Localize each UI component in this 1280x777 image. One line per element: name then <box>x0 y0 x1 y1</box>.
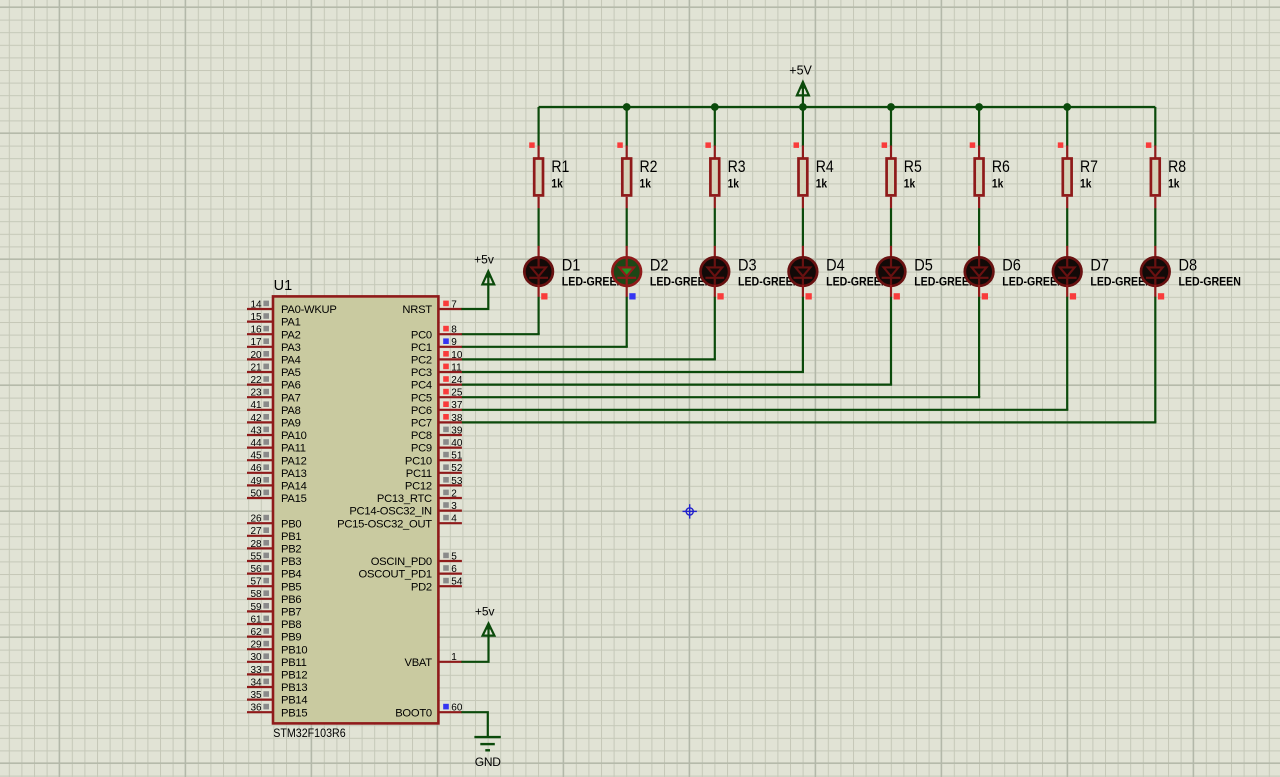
svg-text:45: 45 <box>250 451 262 462</box>
svg-text:8: 8 <box>451 325 457 336</box>
svg-text:34: 34 <box>250 677 262 688</box>
node pin-state square at R8 top (red) <box>1146 142 1152 148</box>
svg-text:51: 51 <box>451 451 463 462</box>
resistor R1 1k <box>534 146 543 209</box>
svg-text:PB6: PB6 <box>281 594 301 606</box>
wire LED D4 cathode down <box>802 297 804 372</box>
svg-text:33: 33 <box>250 665 262 676</box>
wire from +5V rail to resistor R3 <box>714 107 716 146</box>
svg-text:PB14: PB14 <box>281 695 307 707</box>
wire from +5V rail to resistor R2 <box>626 107 628 146</box>
node pin-state square at R3 top (red) <box>705 142 711 148</box>
svg-text:4: 4 <box>451 514 457 525</box>
svg-text:43: 43 <box>250 425 262 436</box>
svg-text:NRST: NRST <box>402 304 432 316</box>
wire resistor R8 to LED D8 <box>1154 208 1156 246</box>
pin 41 (PA8) left <box>247 400 301 417</box>
svg-text:39: 39 <box>451 425 463 436</box>
svg-text:D5: D5 <box>914 255 933 274</box>
svg-text:PC6: PC6 <box>411 405 432 417</box>
svg-text:PC7: PC7 <box>411 418 432 430</box>
wire resistor R4 to LED D4 <box>802 208 804 246</box>
svg-text:52: 52 <box>451 463 463 474</box>
pin 21 (PA5) left <box>247 362 301 379</box>
pin 59 (PB7) left <box>247 602 301 619</box>
svg-text:D8: D8 <box>1179 255 1198 274</box>
junction dot on +5V rail at column 6 <box>975 103 983 111</box>
pin 2 (PC13_RTC) right <box>377 488 462 505</box>
svg-text:PB10: PB10 <box>281 644 307 656</box>
svg-text:16: 16 <box>250 325 262 336</box>
svg-text:PB15: PB15 <box>281 707 307 719</box>
svg-text:D1: D1 <box>562 255 581 274</box>
resistor R7 1k <box>1063 146 1072 209</box>
svg-text:3: 3 <box>451 501 457 512</box>
node pin-state square at D2 cathode (blue) <box>629 293 635 299</box>
svg-text:PC9: PC9 <box>411 443 432 455</box>
svg-text:62: 62 <box>250 627 262 638</box>
wire from +5V rail to resistor R6 <box>978 107 980 146</box>
pin 45 (PA12) left <box>247 451 307 468</box>
pin 42 (PA9) left <box>247 413 301 430</box>
svg-text:PA12: PA12 <box>281 455 307 467</box>
svg-text:+5v: +5v <box>474 252 494 266</box>
svg-text:1k: 1k <box>551 178 563 190</box>
pin 5 (OSCIN_PD0) right <box>371 551 462 568</box>
svg-text:PC12: PC12 <box>405 481 432 493</box>
svg-text:1k: 1k <box>1168 178 1180 190</box>
svg-text:27: 27 <box>250 526 262 537</box>
LED D4 (off) <box>789 246 818 297</box>
svg-text:PC4: PC4 <box>411 380 432 392</box>
svg-text:PA11: PA11 <box>281 443 306 455</box>
svg-text:PB7: PB7 <box>281 607 301 619</box>
wire net PC5 from LED D6 to chip pin <box>461 396 980 398</box>
svg-text:OSCIN_PD0: OSCIN_PD0 <box>371 556 432 568</box>
svg-text:PD2: PD2 <box>411 581 432 593</box>
svg-text:PC13_RTC: PC13_RTC <box>377 493 432 505</box>
pin 34 (PB13) left <box>247 677 307 694</box>
pin 17 (PA3) left <box>247 337 301 354</box>
wire LED D5 cathode down <box>890 297 892 385</box>
pin 20 (PA4) left <box>247 350 301 367</box>
svg-text:STM32F103R6: STM32F103R6 <box>273 728 346 740</box>
svg-text:11: 11 <box>451 362 462 373</box>
pin 52 (PC11) right <box>406 463 463 480</box>
svg-text:R7: R7 <box>1080 157 1098 176</box>
svg-text:35: 35 <box>250 690 262 701</box>
pin 1 (VBAT) right <box>405 652 462 669</box>
svg-text:R2: R2 <box>640 157 658 176</box>
svg-text:50: 50 <box>250 488 262 499</box>
wire LED D1 cathode down <box>537 297 539 334</box>
pin 27 (PB1) left <box>247 526 301 543</box>
svg-text:OSCOUT_PD1: OSCOUT_PD1 <box>359 569 432 581</box>
svg-text:PC15-OSC32_OUT: PC15-OSC32_OUT <box>337 518 432 530</box>
svg-text:PA5: PA5 <box>281 367 301 379</box>
svg-text:53: 53 <box>451 476 463 487</box>
svg-text:7: 7 <box>451 299 457 310</box>
svg-text:R4: R4 <box>816 157 834 176</box>
wire from +5V rail to resistor R8 <box>1154 107 1156 146</box>
svg-text:22: 22 <box>250 375 262 386</box>
svg-text:PB11: PB11 <box>281 657 307 669</box>
svg-text:PB8: PB8 <box>281 619 301 631</box>
svg-text:37: 37 <box>451 400 463 411</box>
svg-text:46: 46 <box>250 463 262 474</box>
wire resistor R5 to LED D5 <box>890 208 892 246</box>
svg-text:5: 5 <box>451 551 457 562</box>
svg-text:26: 26 <box>250 514 262 525</box>
pin 39 (PC8) right <box>411 425 463 442</box>
wire NRST pin to +5v arrow <box>461 285 488 309</box>
svg-text:PA14: PA14 <box>281 481 307 493</box>
svg-text:PC2: PC2 <box>411 355 432 367</box>
svg-text:PB1: PB1 <box>281 531 301 543</box>
svg-text:15: 15 <box>250 312 262 323</box>
wire LED D2 cathode down <box>626 297 628 347</box>
svg-text:42: 42 <box>250 413 262 424</box>
wire from +5V rail to resistor R5 <box>890 107 892 146</box>
svg-text:40: 40 <box>451 438 463 449</box>
svg-text:10: 10 <box>451 350 463 361</box>
svg-text:56: 56 <box>250 564 262 575</box>
node pin-state square at D7 cathode (red) <box>1070 293 1076 299</box>
node pin-state square at D3 cathode (red) <box>717 293 723 299</box>
pin 56 (PB4) left <box>247 564 301 581</box>
junction dot on +5V rail at column 2 <box>623 103 631 111</box>
node pin-state square at R7 top (red) <box>1058 142 1064 148</box>
junction dot on +5V rail at column 7 <box>1063 103 1071 111</box>
pin 28 (PB2) left <box>247 539 301 556</box>
pin 50 (PA15) left <box>247 488 307 505</box>
junction dot on +5V rail at column 3 <box>711 103 719 111</box>
wire resistor R2 to LED D2 <box>626 208 628 246</box>
svg-text:PA1: PA1 <box>281 317 301 329</box>
node pin-state square at R2 top (red) <box>617 142 623 148</box>
svg-text:36: 36 <box>250 703 262 714</box>
pin 61 (PB8) left <box>247 614 301 631</box>
svg-text:+5V: +5V <box>789 64 812 78</box>
svg-text:PA9: PA9 <box>281 418 301 430</box>
LED D3 (off) <box>701 246 730 297</box>
pin 35 (PB14) left <box>247 690 307 707</box>
op-amp U1 microcontroller STM32F103R6 body <box>273 296 438 723</box>
svg-text:60: 60 <box>451 703 463 714</box>
wire resistor R6 to LED D6 <box>978 208 980 246</box>
pin 3 (PC14-OSC32_IN) right <box>349 501 462 518</box>
node pin-state square at R6 top (red) <box>970 142 976 148</box>
svg-text:PB0: PB0 <box>281 518 301 530</box>
svg-text:2: 2 <box>451 488 457 499</box>
pin 44 (PA11) left <box>247 438 306 455</box>
pin 57 (PB5) left <box>247 577 301 594</box>
svg-text:1k: 1k <box>992 178 1004 190</box>
svg-text:PC3: PC3 <box>411 367 432 379</box>
wire net PC2 from LED D3 to chip pin <box>461 358 716 360</box>
wire net PC6 from LED D7 to chip pin <box>461 409 1068 411</box>
node pin-state square at R5 top (red) <box>882 142 888 148</box>
svg-text:54: 54 <box>451 577 463 588</box>
pin 54 (PD2) right <box>411 577 463 594</box>
svg-text:20: 20 <box>250 350 262 361</box>
wire VBAT pin to +5v arrow <box>461 636 488 662</box>
pin 4 (PC15-OSC32_OUT) right <box>337 514 462 531</box>
ground symbol <box>474 737 500 750</box>
svg-text:D3: D3 <box>738 255 757 274</box>
wire LED D3 cathode down <box>714 297 716 360</box>
svg-text:14: 14 <box>250 299 262 310</box>
wire LED D8 cathode down <box>1154 297 1156 423</box>
node pin-state square at D8 cathode (red) <box>1158 293 1164 299</box>
svg-text:PA0-WKUP: PA0-WKUP <box>281 304 337 316</box>
resistor R5 1k <box>887 146 896 209</box>
power +5V arrow symbol at top <box>797 81 809 107</box>
wire +5V horizontal bus rail <box>539 106 1156 108</box>
wire LED D7 cathode down <box>1066 297 1068 410</box>
svg-text:D6: D6 <box>1002 255 1021 274</box>
wire net PC4 from LED D5 to chip pin <box>461 384 892 386</box>
pin 62 (PB9) left <box>247 627 301 644</box>
svg-text:PA6: PA6 <box>281 380 301 392</box>
wire LED D6 cathode down <box>978 297 980 397</box>
svg-text:1k: 1k <box>1080 178 1092 190</box>
svg-text:PA3: PA3 <box>281 342 301 354</box>
svg-text:55: 55 <box>250 551 262 562</box>
svg-text:VBAT: VBAT <box>405 657 433 669</box>
power +5v arrow symbol near NRST <box>482 271 494 285</box>
svg-text:61: 61 <box>250 614 262 625</box>
svg-text:D4: D4 <box>826 255 845 274</box>
pin 33 (PB12) left <box>247 665 307 682</box>
node pin-state square at D1 cathode (red) <box>541 293 547 299</box>
svg-text:R3: R3 <box>728 157 746 176</box>
LED D7 (off) <box>1053 246 1082 297</box>
pin 38 (PC7) right <box>411 413 463 430</box>
svg-text:PC14-OSC32_IN: PC14-OSC32_IN <box>349 506 432 518</box>
svg-text:LED-GREEN: LED-GREEN <box>1179 276 1241 288</box>
svg-text:PC0: PC0 <box>411 329 432 341</box>
pin 8 (PC0) right <box>411 325 462 342</box>
svg-text:D2: D2 <box>650 255 669 274</box>
svg-text:44: 44 <box>250 438 262 449</box>
wire from +5V rail to resistor R1 <box>537 107 539 146</box>
svg-text:R8: R8 <box>1168 157 1186 176</box>
resistor R6 1k <box>975 146 984 209</box>
wire BOOT0 pin to ground <box>461 712 487 736</box>
svg-text:U1: U1 <box>274 278 293 294</box>
svg-text:58: 58 <box>250 589 262 600</box>
svg-text:GND: GND <box>475 755 501 769</box>
resistor R8 1k <box>1151 146 1160 209</box>
svg-text:PA2: PA2 <box>281 329 301 341</box>
wire resistor R1 to LED D1 <box>537 208 539 246</box>
svg-text:1k: 1k <box>816 178 828 190</box>
power +5v arrow symbol near VBAT <box>483 623 495 636</box>
wire resistor R3 to LED D3 <box>714 208 716 246</box>
node pin-state square at D6 cathode (red) <box>982 293 988 299</box>
pin 10 (PC2) right <box>411 350 463 367</box>
junction dot on +5V rail at column 5 <box>887 103 895 111</box>
svg-text:PB13: PB13 <box>281 682 307 694</box>
LED D1 (off) <box>524 246 553 297</box>
svg-text:30: 30 <box>250 652 262 663</box>
junction dot on +5V rail at column 4 <box>799 103 807 111</box>
svg-text:28: 28 <box>250 539 262 550</box>
pin 14 (PA0-WKUP) left <box>247 299 337 316</box>
svg-text:PA4: PA4 <box>281 355 301 367</box>
svg-text:17: 17 <box>250 337 262 348</box>
pin 40 (PC9) right <box>411 438 463 455</box>
svg-text:PA10: PA10 <box>281 430 307 442</box>
pin 25 (PC5) right <box>411 388 463 405</box>
svg-text:R6: R6 <box>992 157 1010 176</box>
svg-text:+5v: +5v <box>475 605 495 619</box>
pin 43 (PA10) left <box>247 425 307 442</box>
pin 37 (PC6) right <box>411 400 463 417</box>
node pin-state square at R4 top (red) <box>794 142 800 148</box>
node origin marker (blue crosshair) <box>683 504 697 518</box>
svg-text:PC10: PC10 <box>405 455 432 467</box>
node pin-state square at D4 cathode (red) <box>806 293 812 299</box>
wire resistor R7 to LED D7 <box>1066 208 1068 246</box>
pin 49 (PA14) left <box>247 476 307 493</box>
svg-text:PB3: PB3 <box>281 556 301 568</box>
pin 23 (PA7) left <box>247 388 301 405</box>
pin 60 (BOOT0) right <box>395 703 463 720</box>
svg-text:49: 49 <box>250 476 262 487</box>
pin 6 (OSCOUT_PD1) right <box>359 564 462 581</box>
wire from +5V rail to resistor R4 <box>802 107 804 146</box>
LED D6 (off) <box>965 246 994 297</box>
svg-text:PA8: PA8 <box>281 405 301 417</box>
svg-text:1k: 1k <box>640 178 652 190</box>
svg-text:PB12: PB12 <box>281 670 307 682</box>
svg-text:23: 23 <box>250 388 262 399</box>
pin 9 (PC1) right <box>411 337 462 354</box>
pin 55 (PB3) left <box>247 551 301 568</box>
pin 22 (PA6) left <box>247 375 301 392</box>
pin 53 (PC12) right <box>405 476 463 493</box>
svg-text:6: 6 <box>451 564 457 575</box>
svg-text:PB4: PB4 <box>281 569 301 581</box>
svg-text:BOOT0: BOOT0 <box>395 707 432 719</box>
resistor R3 1k <box>710 146 719 209</box>
svg-text:41: 41 <box>250 400 262 411</box>
pin 7 (NRST) right <box>402 299 461 316</box>
node pin-state square at R1 top (red) <box>529 142 535 148</box>
svg-text:PB2: PB2 <box>281 544 301 556</box>
wire net PC3 from LED D4 to chip pin <box>461 371 804 373</box>
svg-text:9: 9 <box>451 337 457 348</box>
wire net PC7 from LED D8 to chip pin <box>461 421 1156 423</box>
svg-text:R5: R5 <box>904 157 922 176</box>
svg-text:38: 38 <box>451 413 463 424</box>
svg-text:57: 57 <box>250 577 262 588</box>
pin 26 (PB0) left <box>247 514 301 531</box>
svg-text:PA7: PA7 <box>281 392 301 404</box>
wire net PC0 from LED D1 to chip pin <box>461 333 539 335</box>
svg-text:1: 1 <box>451 652 457 663</box>
pin 15 (PA1) left <box>247 312 301 329</box>
svg-text:PC5: PC5 <box>411 392 432 404</box>
LED D2 (lit green) <box>612 246 641 297</box>
svg-text:PC8: PC8 <box>411 430 432 442</box>
pin 24 (PC4) right <box>411 375 463 392</box>
svg-text:PC11: PC11 <box>406 468 432 480</box>
svg-text:PB9: PB9 <box>281 632 301 644</box>
svg-text:PA15: PA15 <box>281 493 307 505</box>
svg-text:1k: 1k <box>904 178 916 190</box>
resistor R4 1k <box>799 146 808 209</box>
svg-text:1k: 1k <box>728 178 740 190</box>
pin 36 (PB15) left <box>247 703 307 720</box>
wire net PC1 from LED D2 to chip pin <box>461 346 627 348</box>
svg-text:29: 29 <box>250 640 262 651</box>
LED D8 (off) <box>1141 246 1170 297</box>
pin 58 (PB6) left <box>247 589 301 606</box>
svg-text:59: 59 <box>250 602 262 613</box>
svg-text:R1: R1 <box>551 157 569 176</box>
node pin-state square at D5 cathode (red) <box>894 293 900 299</box>
pin 16 (PA2) left <box>247 325 301 342</box>
wire from +5V rail to resistor R7 <box>1066 107 1068 146</box>
svg-text:24: 24 <box>451 375 463 386</box>
svg-text:PB5: PB5 <box>281 581 301 593</box>
pin 30 (PB11) left <box>247 652 307 669</box>
svg-text:PC1: PC1 <box>411 342 432 354</box>
resistor R2 1k <box>622 146 631 209</box>
pin 51 (PC10) right <box>405 451 463 468</box>
pin 29 (PB10) left <box>247 640 307 657</box>
svg-text:25: 25 <box>451 388 463 399</box>
pin 11 (PC3) right <box>411 362 462 379</box>
svg-text:PA13: PA13 <box>281 468 307 480</box>
svg-text:21: 21 <box>250 362 262 373</box>
svg-text:D7: D7 <box>1090 255 1109 274</box>
LED D5 (off) <box>877 246 906 297</box>
pin 46 (PA13) left <box>247 463 307 480</box>
